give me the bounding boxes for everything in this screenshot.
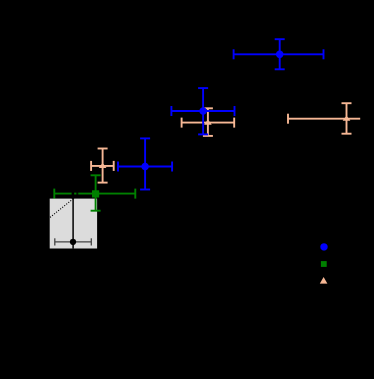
blue point A y-error line <box>279 39 281 69</box>
salmon point C y-error line <box>346 103 348 134</box>
salmon point B2 y-error line <box>207 108 209 136</box>
blue series <box>118 39 324 189</box>
green point y-error line <box>95 175 97 210</box>
blue point D x-error caps <box>117 162 119 172</box>
blue point D y-error line <box>144 138 146 189</box>
blue point B y-error caps <box>198 87 208 89</box>
salmon point B2 x-error line <box>182 122 235 124</box>
blue point A x-error caps <box>233 49 235 59</box>
salmon triangle markers <box>99 115 351 168</box>
green point x-error line <box>54 193 135 195</box>
gray x-error caps <box>54 238 56 245</box>
dotted-line dot crossing green line <box>76 193 78 195</box>
salmon point C x-error left cap <box>287 114 289 124</box>
blue point A x-error line <box>234 53 324 55</box>
salmon point E x-error line <box>91 165 114 167</box>
blue point D y-error caps <box>140 137 150 139</box>
legend blue circle <box>320 243 327 250</box>
salmon point E y-error line <box>102 149 104 183</box>
green point x-error caps <box>53 189 55 199</box>
gray shaded box <box>50 199 97 249</box>
green series <box>54 175 135 210</box>
salmon point C x-error line <box>288 118 360 120</box>
blue point A y-error caps <box>275 38 285 40</box>
salmon series <box>91 103 360 182</box>
blue circle markers <box>141 51 283 171</box>
gray x-error line <box>55 241 92 243</box>
green square marker <box>92 190 99 197</box>
dotted diagonal line inside box <box>50 199 73 218</box>
blue point D x-error line <box>118 166 172 168</box>
green point y-error caps <box>91 174 101 176</box>
salmon point C y-error caps <box>342 102 352 104</box>
salmon point B2 x-error caps <box>181 118 183 128</box>
salmon point E x-error caps <box>90 161 92 171</box>
blue point B y-error line <box>202 88 204 134</box>
blue point B x-error line <box>171 110 234 112</box>
legend green square <box>321 261 327 267</box>
legend salmon triangle <box>320 277 328 284</box>
salmon point B2 y-error caps <box>203 107 213 109</box>
black measured point group (over green) <box>55 191 92 248</box>
black y-error line inside box <box>72 199 74 249</box>
black y-error line upper part (cuts green line) <box>72 191 75 199</box>
salmon point E y-error caps <box>98 148 108 150</box>
blue point B x-error caps <box>170 106 172 116</box>
black circle marker <box>70 239 76 245</box>
